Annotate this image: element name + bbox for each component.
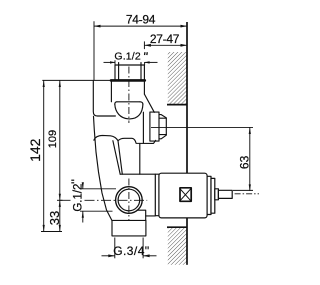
svg-text:G.3/4": G.3/4" — [113, 244, 149, 258]
svg-text:G.1/2: G.1/2 — [72, 184, 84, 212]
svg-text:27-47: 27-47 — [150, 32, 180, 46]
svg-text:142: 142 — [27, 138, 43, 162]
svg-text:63: 63 — [238, 155, 252, 169]
svg-text:109: 109 — [47, 130, 59, 148]
svg-text:74-94: 74-94 — [126, 13, 156, 27]
svg-text:G.1/2: G.1/2 — [114, 50, 140, 62]
svg-text:33: 33 — [47, 211, 62, 225]
